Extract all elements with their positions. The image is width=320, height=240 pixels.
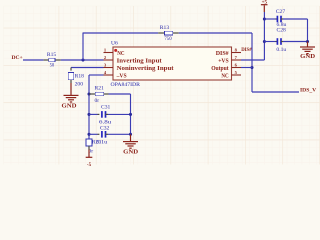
- svg-text:R21: R21: [95, 86, 105, 92]
- capacitor C27: [276, 16, 278, 23]
- wire caps right rail: [307, 19, 309, 42]
- svg-text:GND: GND: [123, 150, 139, 156]
- resistor R13: [158, 32, 164, 34]
- svg-text:OPA847IDR: OPA847IDR: [111, 82, 141, 88]
- wire C32 right: [106, 133, 109, 135]
- svg-text:R13: R13: [160, 25, 170, 31]
- svg-text:U6: U6: [111, 40, 118, 46]
- svg-text:C31: C31: [101, 105, 111, 111]
- svg-text:Inverting Input: Inverting Input: [117, 58, 162, 64]
- junction C28 tap: [263, 40, 266, 43]
- capacitor C31: [101, 111, 103, 118]
- svg-text:NC: NC: [221, 73, 228, 79]
- svg-text:750: 750: [164, 36, 171, 42]
- svg-text:C27: C27: [276, 9, 286, 15]
- wire C27 right to rail: [281, 18, 283, 20]
- wire C28 right to rail: [281, 41, 283, 43]
- svg-text:+VS: +VS: [218, 58, 229, 64]
- svg-text:R18: R18: [75, 74, 85, 80]
- svg-text:50: 50: [50, 62, 55, 68]
- svg-text:0r: 0r: [95, 98, 100, 104]
- svg-text:GND: GND: [62, 104, 78, 110]
- resistor R21: [89, 93, 95, 95]
- ground GND mid: [130, 134, 132, 141]
- junction C31 right: [129, 113, 132, 116]
- svg-text:NC: NC: [117, 51, 124, 57]
- svg-text:R15: R15: [47, 52, 57, 58]
- wire rail to C32: [89, 133, 98, 135]
- wire C31 right: [106, 113, 109, 115]
- pin 1 marker dot: [114, 49, 117, 52]
- wire +5 rail vertical: [263, 12, 265, 60]
- wire R21 to right rail: [109, 93, 131, 95]
- svg-text:–VS: –VS: [116, 73, 128, 79]
- svg-text:DIS#: DIS#: [216, 51, 229, 57]
- ground GND right: [307, 42, 309, 47]
- wire noninverting pin 3: [71, 67, 104, 69]
- wire R13 to feedback right vertical: [179, 32, 252, 34]
- svg-text:GND: GND: [300, 54, 316, 60]
- svg-text:Output: Output: [211, 66, 229, 72]
- svg-text:Noninverting Input: Noninverting Input: [117, 66, 174, 72]
- junction at inverting input node: [81, 58, 84, 61]
- wire rail to C27: [264, 18, 275, 20]
- junction R21 tap: [87, 92, 90, 95]
- junction C31 left: [87, 113, 90, 116]
- junction C32 right / GND stem: [129, 133, 132, 136]
- junction at GND stem: [306, 40, 309, 43]
- wire R15 to op-amp pin 2: [61, 59, 104, 61]
- wire output to IDS_V: [252, 91, 299, 93]
- pin stubs left: [104, 52, 114, 54]
- power port -5: [88, 146, 90, 150]
- wire feedback right vertical: [251, 33, 253, 92]
- svg-text:IDS_V: IDS_V: [300, 88, 316, 94]
- svg-text:C32: C32: [100, 126, 110, 132]
- wire +VS pin 7 to +5 rail: [241, 59, 264, 61]
- wire rail to C31: [89, 113, 98, 115]
- svg-text:200: 200: [75, 81, 84, 87]
- svg-text:C28: C28: [277, 28, 287, 34]
- resistor R15: [44, 59, 49, 61]
- svg-text:0.1u: 0.1u: [276, 47, 286, 53]
- pin stubs right: [232, 52, 242, 54]
- capacitor C28: [276, 38, 278, 45]
- junction C32 left: [87, 133, 90, 136]
- wire down to R18: [70, 68, 72, 71]
- junction C27 tap: [263, 17, 266, 20]
- svg-text:-5: -5: [87, 163, 92, 168]
- wire rail to C28: [264, 41, 275, 43]
- wire -VS rail vertical: [88, 75, 90, 139]
- resistor R18: [68, 73, 74, 80]
- wire DC+ input to R15: [23, 59, 44, 61]
- wire top feedback to R13: [83, 32, 158, 34]
- junction at output node: [250, 66, 253, 69]
- svg-text:R20: R20: [92, 140, 102, 146]
- svg-text:DIS#: DIS#: [241, 47, 252, 53]
- wire -VS pin 4: [89, 74, 104, 76]
- wire output pin 6: [241, 67, 252, 69]
- capacitor C32: [101, 131, 103, 138]
- svg-text:DC+: DC+: [12, 55, 23, 61]
- wire right rail down: [130, 94, 132, 134]
- op-amp U6 OPA847IDR: [113, 47, 232, 80]
- wire feedback left vertical: [82, 33, 84, 61]
- resistor R20: [86, 139, 92, 146]
- ground GND under R18: [70, 80, 72, 83]
